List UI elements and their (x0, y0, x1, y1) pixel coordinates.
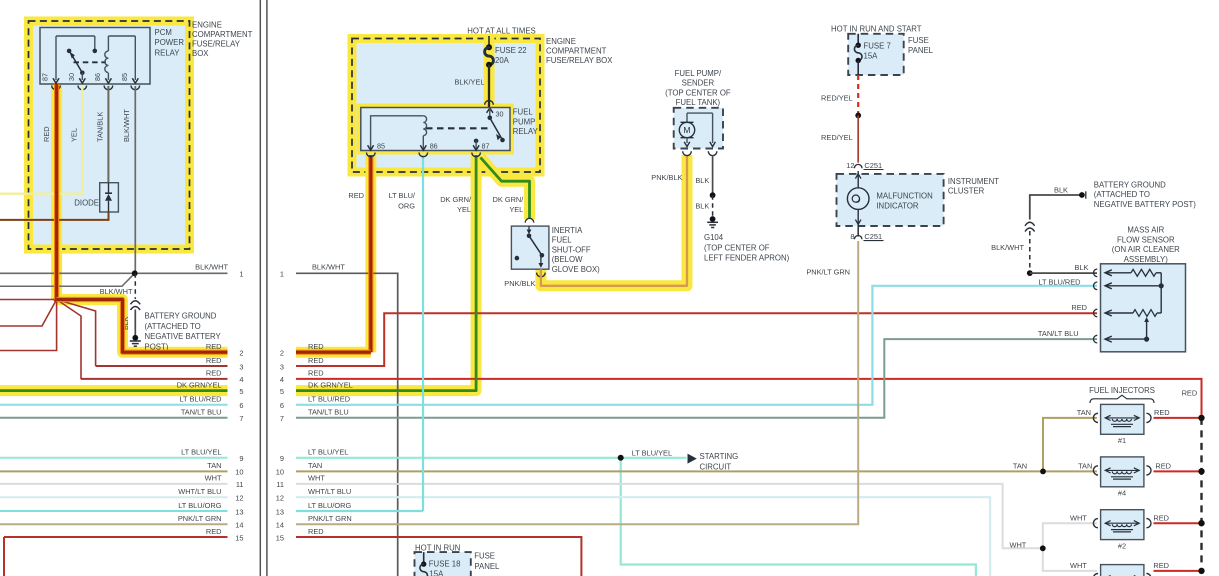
svg-text:FUSE/RELAY: FUSE/RELAY (192, 39, 241, 48)
svg-text:BLK/WHT: BLK/WHT (100, 287, 133, 296)
svg-text:INSTRUMENT: INSTRUMENT (948, 177, 999, 186)
svg-text:NEGATIVE BATTERY POST): NEGATIVE BATTERY POST) (1094, 200, 1197, 209)
svg-text:RED: RED (1153, 514, 1169, 523)
svg-text:C251: C251 (864, 232, 882, 241)
svg-text:MALFUNCTION: MALFUNCTION (876, 191, 932, 200)
svg-text:COMPARTMENT: COMPARTMENT (546, 46, 607, 55)
svg-text:30: 30 (67, 73, 76, 81)
svg-text:WHT/LT BLU: WHT/LT BLU (178, 487, 221, 496)
svg-text:7: 7 (280, 414, 284, 423)
svg-text:1: 1 (239, 270, 243, 279)
svg-text:HOT IN RUN AND START: HOT IN RUN AND START (831, 24, 922, 33)
svg-text:LT BLU/ORG: LT BLU/ORG (178, 501, 222, 510)
svg-text:BATTERY GROUND: BATTERY GROUND (1094, 180, 1166, 189)
svg-text:DK GRN/YEL: DK GRN/YEL (308, 380, 353, 389)
svg-text:POWER: POWER (155, 38, 185, 47)
svg-text:PCM: PCM (155, 28, 172, 37)
svg-text:TAN/LT BLU: TAN/LT BLU (1038, 329, 1079, 338)
svg-text:9: 9 (280, 454, 284, 463)
svg-text:BLK/WHT: BLK/WHT (195, 262, 228, 271)
svg-text:86: 86 (93, 73, 102, 81)
svg-text:8: 8 (850, 232, 854, 241)
svg-text:6: 6 (239, 401, 243, 410)
svg-text:#2: #2 (1118, 541, 1126, 550)
svg-text:BLK/WHT: BLK/WHT (991, 243, 1024, 252)
svg-text:TAN/LT BLU: TAN/LT BLU (181, 408, 222, 417)
svg-text:LT BLU/RED: LT BLU/RED (1038, 277, 1080, 286)
svg-text:WHT: WHT (1070, 561, 1087, 570)
svg-text:PANEL: PANEL (908, 46, 934, 55)
svg-text:RED/YEL: RED/YEL (821, 93, 853, 102)
svg-text:RED: RED (42, 126, 51, 142)
svg-text:4: 4 (239, 375, 243, 384)
svg-text:CLUSTER: CLUSTER (948, 187, 985, 196)
svg-text:LT BLU/: LT BLU/ (389, 191, 416, 200)
svg-text:12: 12 (276, 494, 284, 503)
svg-text:FUSE/RELAY BOX: FUSE/RELAY BOX (546, 56, 613, 65)
svg-text:85: 85 (120, 73, 129, 81)
svg-text:PUMP: PUMP (513, 117, 536, 126)
svg-text:LT BLU/YEL: LT BLU/YEL (308, 448, 348, 457)
svg-text:PNK/BLK: PNK/BLK (504, 279, 535, 288)
svg-text:RED: RED (308, 527, 324, 536)
svg-text:3: 3 (239, 362, 243, 371)
svg-text:STARTING: STARTING (700, 452, 739, 461)
svg-text:FUSE: FUSE (474, 552, 495, 561)
svg-text:M: M (683, 125, 690, 135)
svg-text:RED: RED (206, 527, 222, 536)
svg-text:PNK/LT GRN: PNK/LT GRN (178, 514, 222, 523)
svg-text:(ATTACHED TO: (ATTACHED TO (145, 322, 201, 331)
svg-text:12: 12 (846, 161, 854, 170)
svg-text:30: 30 (496, 110, 504, 119)
svg-text:7: 7 (239, 414, 243, 423)
svg-text:FUEL: FUEL (513, 108, 534, 117)
svg-text:PNK/LT GRN: PNK/LT GRN (308, 514, 352, 523)
svg-text:#1: #1 (1118, 436, 1126, 445)
svg-text:INERTIA: INERTIA (552, 226, 583, 235)
svg-text:BOX: BOX (192, 49, 209, 58)
svg-text:YEL: YEL (457, 205, 471, 214)
svg-text:FUSE: FUSE (908, 36, 929, 45)
svg-text:YEL: YEL (69, 128, 78, 142)
svg-text:(TOP CENTER OF: (TOP CENTER OF (704, 243, 770, 252)
svg-text:MASS AIR: MASS AIR (1127, 226, 1164, 235)
svg-text:3: 3 (280, 362, 284, 371)
svg-text:(TOP CENTER OF: (TOP CENTER OF (665, 88, 731, 97)
svg-text:4: 4 (280, 375, 284, 384)
svg-text:COMPARTMENT: COMPARTMENT (192, 30, 253, 39)
svg-text:ENGINE: ENGINE (546, 37, 576, 46)
svg-text:WHT: WHT (205, 474, 222, 483)
svg-text:9: 9 (239, 454, 243, 463)
svg-text:5: 5 (239, 387, 243, 396)
svg-text:LEFT FENDER APRON): LEFT FENDER APRON) (704, 254, 790, 263)
svg-text:TAN: TAN (1013, 462, 1027, 471)
svg-text:DK GRN/: DK GRN/ (440, 195, 472, 204)
svg-text:13: 13 (235, 507, 243, 516)
svg-text:WHT: WHT (1070, 514, 1087, 523)
svg-text:FUEL PUMP/: FUEL PUMP/ (675, 69, 722, 78)
svg-text:5: 5 (280, 387, 284, 396)
svg-text:BLK: BLK (1075, 263, 1089, 272)
svg-text:6: 6 (280, 401, 284, 410)
svg-text:HOT IN RUN: HOT IN RUN (415, 543, 460, 552)
svg-text:RELAY: RELAY (155, 48, 181, 57)
svg-text:TAN: TAN (308, 461, 322, 470)
svg-text:2: 2 (239, 349, 243, 358)
svg-text:GLOVE BOX): GLOVE BOX) (552, 265, 600, 274)
svg-text:WHT: WHT (1009, 541, 1026, 550)
svg-text:RED: RED (206, 342, 222, 351)
svg-text:SENDER: SENDER (682, 79, 715, 88)
svg-text:13: 13 (276, 507, 284, 516)
svg-text:LT BLU/ORG: LT BLU/ORG (308, 501, 352, 510)
svg-text:BLK: BLK (1054, 185, 1068, 194)
svg-text:FUEL INJECTORS: FUEL INJECTORS (1089, 386, 1155, 395)
svg-text:14: 14 (276, 521, 284, 530)
svg-text:C251: C251 (864, 161, 882, 170)
svg-text:YEL: YEL (509, 205, 523, 214)
svg-text:20A: 20A (495, 56, 510, 65)
svg-text:FUSE 18: FUSE 18 (429, 560, 461, 569)
svg-text:FUSE 7: FUSE 7 (864, 41, 891, 50)
svg-text:87: 87 (41, 73, 50, 81)
svg-text:DK GRN/YEL: DK GRN/YEL (177, 380, 222, 389)
svg-text:DIODE: DIODE (74, 199, 99, 208)
svg-text:RED: RED (1153, 561, 1169, 570)
svg-text:FUEL TANK): FUEL TANK) (676, 98, 721, 107)
svg-text:G104: G104 (704, 233, 724, 242)
svg-text:15A: 15A (429, 569, 444, 576)
svg-text:TAN/BLK: TAN/BLK (95, 112, 104, 142)
svg-text:BLK: BLK (695, 176, 709, 185)
svg-text:WHT/LT BLU: WHT/LT BLU (308, 487, 351, 496)
svg-text:11: 11 (236, 480, 244, 489)
svg-text:(ON AIR CLEANER: (ON AIR CLEANER (1112, 245, 1180, 254)
svg-text:TAN: TAN (1078, 462, 1092, 471)
svg-text:2: 2 (280, 349, 284, 358)
svg-text:PNK/BLK: PNK/BLK (651, 173, 682, 182)
svg-text:FUSE 22: FUSE 22 (495, 46, 527, 55)
svg-text:11: 11 (276, 480, 284, 489)
svg-text:PNK/LT GRN: PNK/LT GRN (806, 268, 850, 277)
svg-text:RED: RED (348, 191, 364, 200)
svg-text:TAN/LT BLU: TAN/LT BLU (308, 408, 349, 417)
svg-text:#4: #4 (1118, 489, 1126, 498)
svg-text:RED: RED (1154, 408, 1170, 417)
svg-text:BLK/WHT: BLK/WHT (312, 263, 345, 272)
svg-text:RED: RED (308, 369, 324, 378)
svg-text:LT BLU/RED: LT BLU/RED (308, 395, 350, 404)
svg-text:RED: RED (1155, 462, 1171, 471)
svg-text:FLOW SENSOR: FLOW SENSOR (1117, 235, 1175, 244)
svg-text:BLK: BLK (695, 202, 709, 211)
svg-text:BATTERY GROUND: BATTERY GROUND (145, 312, 217, 321)
svg-text:ASSEMBLY): ASSEMBLY) (1124, 255, 1168, 264)
svg-text:12: 12 (235, 494, 243, 503)
svg-text:LT BLU/YEL: LT BLU/YEL (181, 448, 221, 457)
svg-text:14: 14 (235, 521, 243, 530)
svg-text:SHUT-OFF: SHUT-OFF (552, 245, 591, 254)
svg-text:DK GRN/: DK GRN/ (493, 195, 525, 204)
svg-text:LT BLU/YEL: LT BLU/YEL (632, 448, 672, 457)
svg-text:LT BLU/RED: LT BLU/RED (179, 395, 221, 404)
svg-text:PANEL: PANEL (474, 562, 500, 571)
svg-text:RED: RED (1071, 303, 1087, 312)
svg-text:(ATTACHED TO: (ATTACHED TO (1094, 190, 1150, 199)
svg-text:CIRCUIT: CIRCUIT (700, 463, 732, 472)
svg-text:FUEL: FUEL (552, 236, 573, 245)
svg-text:ORG: ORG (398, 202, 415, 211)
svg-text:NEGATIVE BATTERY: NEGATIVE BATTERY (145, 332, 222, 341)
svg-text:15: 15 (276, 533, 284, 542)
svg-text:BLK/YEL: BLK/YEL (455, 78, 485, 87)
svg-text:1: 1 (280, 270, 284, 279)
svg-text:10: 10 (235, 468, 243, 477)
svg-text:RELAY: RELAY (513, 127, 539, 136)
svg-text:15A: 15A (864, 52, 879, 61)
svg-text:(BELOW: (BELOW (552, 255, 583, 264)
svg-text:HOT AT ALL TIMES: HOT AT ALL TIMES (467, 27, 535, 36)
svg-text:RED: RED (308, 356, 324, 365)
svg-text:RED: RED (206, 369, 222, 378)
svg-text:15: 15 (235, 533, 243, 542)
svg-text:ENGINE: ENGINE (192, 20, 222, 29)
svg-text:WHT: WHT (308, 474, 325, 483)
svg-text:87: 87 (482, 141, 490, 150)
svg-text:TAN: TAN (207, 461, 221, 470)
svg-text:BLK/WHT: BLK/WHT (122, 109, 131, 142)
svg-text:TAN: TAN (1077, 408, 1091, 417)
svg-text:RED/YEL: RED/YEL (821, 133, 853, 142)
svg-text:RED: RED (206, 356, 222, 365)
svg-text:86: 86 (430, 141, 438, 150)
svg-text:10: 10 (276, 468, 284, 477)
svg-text:85: 85 (377, 141, 385, 150)
svg-text:RED: RED (1182, 388, 1198, 397)
svg-text:INDICATOR: INDICATOR (876, 202, 919, 211)
